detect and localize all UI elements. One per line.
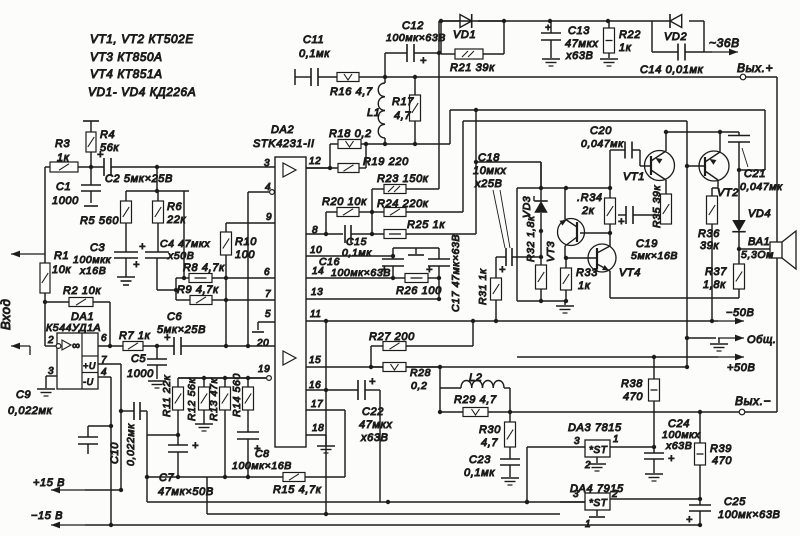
svg-text:х16В: х16В	[79, 265, 106, 277]
pin 18 wire	[306, 423, 326, 445]
wire VT1 emitter to R35	[665, 180, 667, 194]
svg-text:15: 15	[309, 355, 321, 366]
resistor R38	[621, 357, 660, 447]
svg-text:0,047мк: 0,047мк	[581, 138, 624, 150]
svg-text:12: 12	[309, 156, 321, 167]
wire R18-R19 right column	[364, 142, 368, 168]
resistor R24	[372, 198, 463, 217]
svg-text:+50В: +50В	[727, 362, 755, 374]
wire R37 bottom line	[610, 297, 739, 299]
svg-text:10: 10	[310, 245, 322, 256]
wire to speaker	[737, 247, 770, 251]
op-amp IC DA2 STK4231-II	[253, 124, 315, 447]
svg-text:47мк×50В: 47мк×50В	[158, 486, 214, 498]
svg-text:0,022мк: 0,022мк	[125, 423, 137, 466]
svg-text:R23 150к: R23 150к	[377, 173, 429, 185]
capacitor C5	[127, 346, 167, 380]
transistor VT3	[545, 219, 585, 263]
wire R28 node column	[438, 365, 442, 414]
svg-text:С7: С7	[159, 472, 175, 484]
svg-text:11: 11	[310, 309, 322, 320]
svg-text:х50В: х50В	[167, 250, 194, 262]
pin 5 wire	[252, 309, 275, 332]
svg-text:*SТ: *SТ	[589, 445, 608, 456]
svg-text:100мк×63В: 100мк×63В	[718, 509, 780, 521]
wire VT4 collector to R34	[609, 224, 611, 246]
inductor L2	[440, 372, 510, 412]
wire cap tops link	[393, 247, 439, 249]
svg-text:VT4 КТ851А: VT4 КТ851А	[90, 67, 163, 81]
svg-text:7: 7	[265, 289, 271, 300]
tee stub symbol	[408, 248, 424, 255]
wire R23-R24 column	[370, 189, 374, 236]
svg-text:−50В: −50В	[726, 307, 754, 319]
capacitor C25 electrolytic	[686, 496, 780, 526]
svg-text:R15 4,7к: R15 4,7к	[273, 484, 322, 496]
svg-text:R29 4,7: R29 4,7	[454, 394, 497, 406]
svg-text:R7 1к: R7 1к	[119, 330, 151, 342]
capacitor C14	[640, 21, 704, 76]
svg-text:R37: R37	[705, 266, 727, 278]
wire R18-R19 left column	[328, 144, 332, 170]
svg-text:R8 4,7к: R8 4,7к	[183, 262, 225, 274]
svg-text:1к: 1к	[619, 42, 632, 54]
inductor L1	[367, 77, 385, 144]
svg-text:VD3: VD3	[521, 196, 533, 218]
svg-text:R38: R38	[621, 378, 643, 390]
svg-text:5: 5	[265, 309, 271, 320]
wire C10 right column	[147, 411, 178, 502]
label pointer C18	[493, 190, 510, 248]
svg-text:20: 20	[256, 338, 269, 349]
svg-text:VD4: VD4	[748, 208, 771, 220]
svg-text:С1: С1	[56, 181, 71, 193]
svg-text:+: +	[97, 149, 104, 161]
svg-text:+: +	[133, 259, 140, 271]
svg-text:С11: С11	[303, 34, 324, 46]
resistor R3	[45, 138, 78, 172]
wire pin16 column	[324, 319, 328, 514]
svg-text:1к: 1к	[578, 280, 591, 292]
node Vyh- output	[735, 394, 771, 415]
ground at C24	[645, 474, 663, 481]
resistor R12	[186, 378, 210, 424]
svg-text:R20 10к: R20 10к	[322, 196, 367, 208]
svg-text:17: 17	[311, 399, 323, 410]
svg-text:С19: С19	[636, 238, 658, 250]
svg-text:1к: 1к	[57, 152, 70, 164]
svg-text:+: +	[369, 376, 376, 388]
wire R27-R28 left column	[369, 346, 373, 369]
svg-text:-U: -U	[83, 377, 94, 387]
svg-text:18: 18	[312, 423, 324, 434]
resistor R26	[393, 274, 442, 298]
node input label Вход	[0, 299, 13, 330]
top rail +36V	[439, 19, 652, 23]
pin 6 wire	[212, 267, 275, 278]
svg-text:R39: R39	[710, 443, 732, 455]
wire Vyh- line	[510, 410, 777, 414]
capacitor C22 electrolytic	[358, 376, 392, 502]
svg-text:R33: R33	[576, 267, 598, 279]
resistor R32	[525, 215, 547, 301]
svg-text:х63В: х63В	[360, 432, 388, 444]
svg-text:R24 220к: R24 220к	[377, 198, 429, 210]
resistor R19	[306, 156, 409, 173]
svg-text:2к: 2к	[581, 205, 595, 217]
svg-text:1,8к: 1,8к	[703, 279, 726, 291]
wire NFB right side down to C21 column	[739, 110, 765, 170]
diode VD1	[441, 14, 504, 41]
svg-text:+: +	[139, 241, 146, 253]
svg-text:С2 5мк×25В: С2 5мк×25В	[105, 173, 173, 185]
svg-text:47мкх: 47мкх	[359, 419, 392, 431]
capacitor C10	[109, 402, 147, 466]
capacitor C12 electrolytic	[385, 20, 446, 77]
pin 2 of DA3 ground	[584, 457, 606, 471]
arrow -50V	[718, 307, 754, 324]
wire VT1 collector line	[666, 130, 739, 134]
diode VD4	[732, 208, 771, 249]
node Vyh+ output	[737, 61, 773, 80]
svg-text:+: +	[192, 440, 199, 452]
svg-text:R31 1к: R31 1к	[477, 268, 489, 305]
regulator DA4 7915	[570, 483, 624, 510]
svg-text:R10: R10	[235, 236, 257, 248]
svg-text:R18 0,2: R18 0,2	[329, 128, 372, 140]
resistor R23	[372, 173, 439, 194]
resistor R14	[231, 373, 254, 432]
wire VT3 collector	[564, 188, 566, 219]
wire VT1 collector	[664, 130, 668, 151]
pin 7 wire	[226, 289, 275, 300]
ground at DA1 pin3	[37, 389, 55, 396]
resistor R31	[477, 257, 502, 323]
svg-text:С18: С18	[478, 152, 500, 164]
svg-text:4,7: 4,7	[481, 437, 498, 449]
pin 16 wire	[306, 380, 358, 391]
capacitor C17 electrolytic	[426, 234, 462, 312]
svg-text:Общ.: Общ.	[747, 334, 777, 346]
svg-text:10к: 10к	[52, 264, 71, 276]
svg-text:К544УД1А: К544УД1А	[46, 322, 101, 334]
svg-text:С21: С21	[744, 168, 766, 180]
resistor R10	[221, 223, 258, 346]
pin 13 wire	[306, 287, 439, 299]
wire R8 R9 left column	[157, 278, 178, 300]
svg-text:С13: С13	[568, 25, 590, 37]
svg-text:С25: С25	[724, 496, 746, 508]
svg-text:R13 47к: R13 47к	[208, 378, 220, 421]
svg-text:VD1- VD4 КД226А: VD1- VD4 КД226А	[88, 85, 196, 99]
svg-text:0,022мк: 0,022мк	[8, 405, 53, 417]
svg-text:VT4: VT4	[619, 267, 641, 279]
svg-text:DA2: DA2	[271, 124, 294, 136]
svg-text:5,3Ом: 5,3Ом	[741, 249, 774, 261]
svg-text:VD1: VD1	[453, 29, 476, 41]
pin 11 wire -50V rail	[306, 309, 718, 321]
pin 10 wire	[306, 245, 393, 256]
svg-text:0,1мк: 0,1мк	[299, 48, 330, 60]
pin 7 of DA1	[98, 355, 121, 490]
pin 20 wire	[224, 338, 270, 349]
wire VD3 bias line	[474, 160, 541, 188]
pin 3 of DA1	[46, 366, 57, 388]
svg-text:VT3: VT3	[545, 241, 557, 262]
resistor R25	[351, 219, 476, 239]
svg-text:*SТ: *SТ	[589, 498, 608, 509]
wire speaker to Vyh-	[776, 258, 778, 412]
svg-text:VT3 КТ850А: VT3 КТ850А	[90, 50, 163, 64]
svg-text:2: 2	[584, 460, 591, 471]
capacitor C4 electrolytic	[139, 238, 210, 290]
svg-text:С17 47мк×63В: С17 47мк×63В	[450, 234, 462, 312]
svg-text:С9: С9	[16, 389, 31, 401]
capacitor C2 electrolytic	[78, 149, 275, 185]
rail common line	[685, 334, 777, 369]
ground at C3	[117, 277, 135, 285]
pin 4 of DA1	[98, 367, 111, 525]
pin 14 wire	[306, 266, 393, 278]
svg-text:100мк×63В: 100мк×63В	[331, 267, 391, 279]
pin 9 wire	[226, 212, 275, 223]
capacitor C11	[295, 34, 337, 86]
svg-text:6: 6	[264, 267, 270, 278]
resistor R22	[604, 21, 641, 58]
svg-text:3: 3	[264, 158, 270, 169]
resistor R9	[176, 284, 228, 305]
wire VT2 base to frame	[685, 164, 705, 168]
resistor R39	[695, 412, 733, 501]
resistor R37	[703, 249, 745, 298]
svg-text:.R34: .R34	[577, 192, 603, 204]
wire VT2 emitter to R36	[712, 180, 718, 196]
capacitor C6 electrolytic	[157, 311, 275, 355]
capacitor C21	[728, 132, 783, 220]
pin 15 wire common rail	[306, 355, 687, 367]
wire bus y514	[207, 477, 560, 516]
svg-text:19: 19	[258, 364, 270, 375]
svg-text:L1: L1	[367, 107, 380, 119]
svg-text:∞: ∞	[72, 340, 80, 352]
svg-text:С8: С8	[255, 448, 270, 460]
pin 3 of DA4	[560, 489, 585, 502]
svg-text:R32 1,8к: R32 1,8к	[525, 215, 537, 262]
svg-text:С14 0,01мк: С14 0,01мк	[640, 64, 704, 76]
label transistor types list	[88, 32, 196, 99]
svg-text:1000: 1000	[52, 195, 79, 207]
svg-text:+U: +U	[83, 361, 96, 371]
svg-text:R5 560: R5 560	[80, 215, 119, 227]
svg-text:х63В: х63В	[565, 50, 593, 62]
pin 3 of DA3	[527, 436, 585, 447]
svg-text:3: 3	[574, 436, 580, 447]
wire Vyh+ right edge down	[776, 77, 778, 242]
svg-text:VT2: VT2	[717, 187, 739, 199]
capacitor C3	[73, 223, 140, 277]
resistor R11	[161, 374, 184, 445]
capacitor C20	[581, 125, 651, 166]
svg-text:470: 470	[623, 391, 643, 403]
capacitor C19 electrolytic	[618, 206, 678, 262]
wire VT4 base	[565, 257, 597, 259]
svg-text:+: +	[545, 23, 551, 34]
svg-text:−15 В: −15 В	[31, 510, 63, 522]
ground at C13	[542, 59, 560, 66]
svg-text:DA3 7815: DA3 7815	[568, 422, 622, 434]
svg-text:6: 6	[101, 333, 107, 344]
svg-text:R17: R17	[392, 96, 414, 108]
wire R11-R14 top rail	[178, 376, 266, 380]
svg-text:+: +	[618, 216, 625, 228]
svg-text:R22: R22	[619, 29, 641, 41]
resistor R2	[43, 285, 102, 307]
resistor R21	[441, 21, 504, 74]
wire VT3 block top rail	[517, 186, 612, 301]
capacitor C9	[8, 389, 113, 454]
pin 17 wire	[306, 399, 345, 477]
resistor R16	[330, 73, 373, 99]
wire C20 feed column	[609, 150, 611, 188]
svg-text:100: 100	[235, 249, 255, 261]
wire VT3 block bottom rail	[517, 299, 566, 303]
wire input vertical bus x45	[44, 167, 46, 346]
transistor VT2	[699, 151, 739, 199]
svg-text:1000: 1000	[127, 368, 154, 380]
svg-text:R3: R3	[55, 138, 71, 150]
svg-text:VT1: VT1	[623, 171, 645, 183]
op-amp DA1	[46, 311, 101, 389]
capacitor C8	[232, 432, 292, 479]
wire C7 R15 line	[145, 475, 283, 479]
resistor R8	[176, 262, 228, 283]
svg-text:+: +	[668, 453, 675, 465]
svg-text:R25 1к: R25 1к	[407, 219, 445, 231]
wire R5R6 stub	[126, 165, 189, 193]
svg-text:470: 470	[712, 455, 732, 467]
svg-text:+15 В: +15 В	[33, 477, 65, 489]
capacitor C13 electrolytic	[541, 21, 598, 62]
svg-text:10мкх: 10мкх	[473, 165, 506, 177]
svg-text:х25В: х25В	[474, 178, 502, 190]
resistor R36	[698, 196, 720, 323]
diode VD2	[652, 14, 704, 43]
wire output line to Vyh+	[450, 76, 777, 78]
svg-text:Вход: Вход	[0, 299, 13, 330]
capacitor C16 electrolytic	[319, 248, 404, 280]
pin 2 of DA4	[610, 489, 700, 500]
transistor VT4	[588, 244, 641, 279]
svg-text:+: +	[420, 55, 427, 67]
ground at R12	[195, 424, 213, 431]
wire VD3 to R32	[539, 229, 543, 265]
svg-text:R27 200: R27 200	[369, 331, 415, 343]
svg-text:С20: С20	[590, 125, 612, 137]
svg-text:С22: С22	[362, 406, 384, 418]
svg-text:R36: R36	[698, 228, 720, 240]
pin 8 wire	[306, 225, 343, 236]
wire frame y121	[463, 120, 687, 122]
svg-text:R19 220: R19 220	[363, 156, 409, 168]
svg-text:R28: R28	[410, 367, 431, 379]
resistor R28	[371, 363, 440, 393]
capacitor C7 electrolytic	[158, 433, 214, 498]
resistor R20	[322, 196, 374, 236]
capacitor C1	[52, 167, 101, 207]
svg-text:х63В: х63В	[665, 440, 692, 452]
wire R2 to DA1 out	[93, 302, 112, 348]
wire R24 to frame column	[462, 121, 464, 212]
wire +15V bus	[85, 488, 123, 492]
svg-text:R11 22к: R11 22к	[161, 374, 173, 417]
svg-text:С4 47мкх: С4 47мкх	[160, 238, 210, 250]
resistor R30	[479, 412, 516, 459]
svg-text:STK4231-II: STK4231-II	[253, 138, 315, 150]
svg-text:С12: С12	[402, 20, 424, 32]
svg-text:1: 1	[613, 434, 619, 445]
svg-text:100мк×16В: 100мк×16В	[232, 460, 292, 472]
svg-text:L2: L2	[469, 372, 482, 384]
wire R27 column up to -50 rail	[471, 319, 475, 346]
resistor R18	[329, 128, 372, 149]
arrow ~36V output	[704, 36, 740, 55]
svg-text:R16 4,7: R16 4,7	[330, 86, 373, 98]
svg-text:47мкх: 47мкх	[565, 38, 598, 50]
speaker BA1	[741, 231, 796, 269]
svg-text:R14 560: R14 560	[231, 373, 243, 417]
svg-text:R21 39к: R21 39к	[450, 62, 495, 74]
svg-text:С3: С3	[90, 242, 106, 254]
svg-text:0,2: 0,2	[411, 380, 427, 392]
svg-text:13: 13	[311, 287, 323, 298]
wire VT3 base	[580, 231, 612, 235]
resistor R6	[153, 191, 187, 252]
svg-text:VT1, VT2 КТ502Е: VT1, VT2 КТ502Е	[90, 32, 194, 46]
svg-text:R30: R30	[479, 424, 501, 436]
wire frame column x687	[685, 121, 689, 340]
svg-text:+: +	[686, 514, 693, 526]
svg-text:9: 9	[266, 212, 272, 223]
wire R25 to NFB column	[475, 110, 477, 234]
ground at VT3 block	[556, 301, 574, 313]
ground at pin 18	[317, 446, 335, 453]
wire -15V bus	[85, 523, 702, 527]
svg-text:С5: С5	[131, 353, 147, 365]
pin 2 of DA1	[45, 335, 61, 348]
wire R7 to C6	[143, 344, 174, 348]
resistor R27	[369, 331, 473, 351]
svg-text:R9 4,7к: R9 4,7к	[177, 284, 219, 296]
rail +50V	[517, 354, 755, 374]
diode VD3 zener	[521, 162, 548, 231]
wire VT3 emitter node	[564, 246, 568, 260]
pin 12 wire	[306, 156, 330, 168]
svg-text:С10: С10	[109, 442, 121, 464]
capacitor C18 electrolytic	[473, 152, 543, 276]
wire L1R17 line to output column	[366, 110, 450, 146]
svg-text:R1: R1	[54, 250, 69, 262]
svg-text:С23: С23	[469, 454, 491, 466]
svg-text:3: 3	[573, 489, 579, 500]
resistor R29	[440, 394, 512, 417]
ground at C5	[148, 381, 166, 388]
svg-text:0,047мк: 0,047мк	[740, 181, 783, 193]
resistor R7	[119, 330, 151, 351]
svg-text:ВА1: ВА1	[748, 236, 770, 248]
resistor R15	[273, 473, 345, 497]
input ground arrow	[11, 343, 30, 355]
svg-text:4,7: 4,7	[394, 110, 411, 122]
